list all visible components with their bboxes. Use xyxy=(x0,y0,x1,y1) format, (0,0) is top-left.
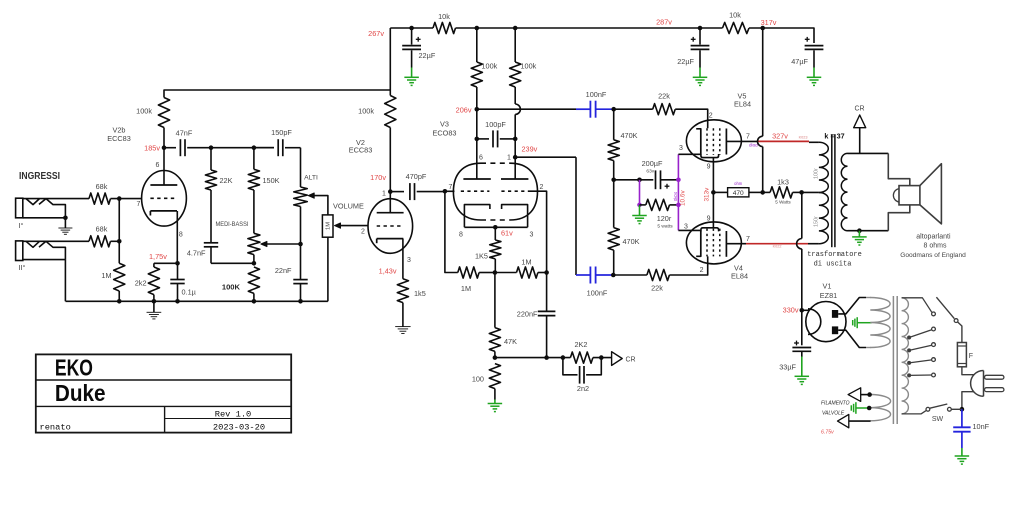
resistor 1M bias right xyxy=(495,272,517,274)
speaker cone xyxy=(920,164,942,224)
selector switch blade xyxy=(936,297,954,318)
wire 150K to MEDI-BASSI pot xyxy=(253,190,255,233)
wire V1 plate upper to HV winding xyxy=(838,298,866,314)
svg-text:200µF: 200µF xyxy=(642,159,663,168)
wire V3 left plate xyxy=(476,109,478,179)
node 100k-2 top xyxy=(513,26,518,31)
svg-text:2: 2 xyxy=(700,267,704,274)
tube V1 plate lower xyxy=(832,326,838,334)
resistor 470K upper xyxy=(613,109,615,140)
wire plate node up xyxy=(163,128,165,148)
resistor 100k V3 right plate xyxy=(514,28,516,62)
svg-text:8: 8 xyxy=(179,232,183,239)
svg-text:470K: 470K xyxy=(623,237,640,246)
svg-text:100k: 100k xyxy=(358,107,374,116)
wire 100K to rail xyxy=(253,293,255,301)
svg-text:MEDI-BASSI: MEDI-BASSI xyxy=(216,221,249,228)
svg-text:ECO83: ECO83 xyxy=(433,129,457,138)
connector CR output triangle xyxy=(859,128,861,154)
resistor 470 box xyxy=(713,191,727,193)
svg-text:1k5: 1k5 xyxy=(414,289,426,298)
svg-text:47K: 47K xyxy=(504,337,517,346)
svg-text:altoparlanti: altoparlanti xyxy=(916,233,951,240)
svg-text:10k: 10k xyxy=(438,12,450,21)
node 100nF upper out xyxy=(611,107,616,112)
resistor 100k V3 left plate xyxy=(476,28,478,62)
potentiometer ALTI xyxy=(294,187,308,207)
resistor 2k2 xyxy=(153,263,155,267)
svg-text:61v: 61v xyxy=(501,229,513,238)
node V3 cathode xyxy=(493,225,498,230)
transformer PT primary winding xyxy=(902,298,909,414)
resistor 1M bias left xyxy=(458,267,479,278)
wire speaker bottom xyxy=(888,205,910,231)
wire to fuse xyxy=(958,322,962,343)
svg-text:185v: 185v xyxy=(144,143,160,152)
svg-text:VOLUME: VOLUME xyxy=(333,201,364,210)
wire 1M to rail xyxy=(118,291,120,301)
tube V3 ECO83 double triode envelope xyxy=(453,163,481,220)
svg-text:K022: K022 xyxy=(773,245,782,249)
wire V5 cathode out xyxy=(678,153,700,155)
svg-text:Rev 1.0: Rev 1.0 xyxy=(215,409,252,419)
tap wires xyxy=(909,330,932,338)
node 206v xyxy=(475,107,480,112)
tube V1 cathode arc xyxy=(808,309,821,335)
node 120r top purple col xyxy=(637,178,642,183)
capacitor 47nF xyxy=(164,147,176,149)
wire jack II sleeve to ground rail xyxy=(64,260,66,302)
svg-text:100K: 100K xyxy=(222,282,241,291)
plug prong lower xyxy=(985,388,1004,392)
svg-text:100nF: 100nF xyxy=(586,90,607,99)
ground rail wire xyxy=(66,300,328,302)
wire fuse to plug xyxy=(962,367,974,375)
svg-text:EZ81: EZ81 xyxy=(820,291,837,300)
capacitor 100nF upper blue xyxy=(576,108,590,110)
tube V5 grid dashes xyxy=(706,128,708,155)
svg-text:287v: 287v xyxy=(656,18,672,27)
svg-text:327v: 327v xyxy=(772,132,788,141)
resistor 10k first xyxy=(433,22,456,33)
svg-text:0k04: 0k04 xyxy=(673,191,678,201)
ground 47uF green xyxy=(813,68,815,78)
svg-text:renato: renato xyxy=(40,423,71,433)
heater symbol V1 green xyxy=(857,322,872,324)
wire OPT center tap to V1 xyxy=(801,192,803,238)
svg-text:3: 3 xyxy=(530,232,534,239)
svg-text:239v: 239v xyxy=(522,145,538,154)
svg-text:EL84: EL84 xyxy=(731,272,748,281)
node secondary ground xyxy=(857,228,862,233)
tube V4 plate xyxy=(725,231,727,257)
svg-text:ECC83: ECC83 xyxy=(107,134,131,143)
node purple 120r xyxy=(676,203,681,208)
wire V4 pin9 up xyxy=(712,192,714,227)
node ALTI bottom 22nF xyxy=(298,242,303,247)
svg-text:22µF: 22µF xyxy=(677,57,694,66)
wire jack II sleeve xyxy=(23,259,66,261)
capacitor 150pF xyxy=(254,147,274,149)
resistor 100k V2 plate load xyxy=(385,96,396,128)
resistor 1k5 V2 cathode xyxy=(397,279,408,303)
wire V5 plate out xyxy=(726,140,757,142)
resistor 10k second xyxy=(723,22,750,33)
node 2n2 left xyxy=(561,355,566,360)
triangle FILAMENTO upper xyxy=(848,388,861,402)
resistor 68k lower xyxy=(89,236,111,247)
tube V2b ECC83 triode xyxy=(142,171,187,227)
node 68k lower junction xyxy=(117,239,122,244)
wire tone stack top xyxy=(211,147,274,149)
tube V3 cathode left xyxy=(464,205,490,228)
ground 22uF second green xyxy=(699,68,701,78)
svg-text:100r: 100r xyxy=(814,168,820,179)
ground 22uF first green xyxy=(411,68,413,78)
node 220nF bottom xyxy=(544,355,549,360)
wire NFB row xyxy=(495,357,571,359)
svg-text:1k3: 1k3 xyxy=(777,178,789,187)
svg-text:VALVOLE: VALVOLE xyxy=(822,411,845,417)
svg-text:10nF: 10nF xyxy=(973,422,990,431)
tube V4 cathode xyxy=(696,230,701,256)
svg-text:II°: II° xyxy=(19,263,26,272)
wire 68k lower to node xyxy=(111,240,120,242)
mains plug body xyxy=(983,371,985,397)
wire jack I tip xyxy=(23,198,89,200)
node cathode 0.1u junction xyxy=(175,261,180,266)
svg-text:100nF: 100nF xyxy=(587,289,608,298)
wire screens drop xyxy=(762,28,764,136)
transformer OPT core xyxy=(831,134,833,247)
transformer PT core xyxy=(892,296,894,424)
capacitor 2n2 parallel xyxy=(563,358,578,375)
svg-text:V1: V1 xyxy=(823,282,832,291)
resistor 2K2 feedback xyxy=(570,352,593,363)
node purple 200uF xyxy=(676,178,681,183)
tube V4 grid dashes xyxy=(706,229,708,257)
svg-text:100k: 100k xyxy=(136,107,152,116)
node V3 grid junction xyxy=(443,189,448,194)
svg-text:1M: 1M xyxy=(461,284,471,293)
node 47K bottom xyxy=(493,355,498,360)
svg-text:330v: 330v xyxy=(783,305,799,314)
node 470K junction xyxy=(611,178,616,183)
svg-text:K023: K023 xyxy=(799,135,808,139)
wire V1 cathode stub xyxy=(802,309,810,311)
tube V1 EZ81 envelope xyxy=(806,302,846,342)
svg-text:1: 1 xyxy=(507,155,511,162)
node 2k2 rail xyxy=(152,299,157,304)
resistor 100k V2b plate load xyxy=(158,98,169,128)
selector tap circles xyxy=(932,312,936,316)
svg-text:9: 9 xyxy=(707,216,711,223)
node filament center xyxy=(867,406,872,411)
tube V3 cathode right xyxy=(502,205,528,228)
resistor 100K bold xyxy=(248,267,259,293)
wire V3 cathode bus xyxy=(464,226,527,228)
wire 2k2 top to cathode xyxy=(154,262,178,264)
transformer OPT primary winding xyxy=(802,191,819,193)
svg-text:2: 2 xyxy=(540,184,544,191)
wire PT primary top tap xyxy=(902,298,932,313)
svg-text:8: 8 xyxy=(459,232,463,239)
svg-text:8 ohms: 8 ohms xyxy=(924,243,947,250)
wire grid node down xyxy=(118,199,120,264)
svg-text:470: 470 xyxy=(733,190,744,197)
svg-text:Goodmans of England: Goodmans of England xyxy=(900,252,966,259)
svg-text:4.7nF: 4.7nF xyxy=(187,249,206,258)
wire V4 plate red xyxy=(746,243,808,245)
svg-text:100: 100 xyxy=(472,375,484,384)
pot VOLUME wiper arrow xyxy=(335,223,341,228)
ground 120r green xyxy=(639,205,641,216)
node 1M right xyxy=(544,270,549,275)
svg-text:Duke: Duke xyxy=(55,380,106,406)
svg-text:317v: 317v xyxy=(761,18,777,27)
wire V2b cathode down pin 8 xyxy=(176,211,178,263)
svg-text:CR: CR xyxy=(626,356,636,363)
node 2K2 right xyxy=(599,355,604,360)
wire plug bottom xyxy=(962,392,974,410)
svg-text:6.75v: 6.75v xyxy=(821,430,834,436)
wire 100k to V2 plate xyxy=(389,128,391,213)
plug prong upper xyxy=(985,375,1004,379)
node grid junction xyxy=(117,196,122,201)
wire V3 grid bias row xyxy=(445,192,458,273)
svg-text:2: 2 xyxy=(361,229,365,236)
wire V3 left grid xyxy=(445,190,455,192)
transformer PT HV winding xyxy=(870,298,890,348)
svg-text:2: 2 xyxy=(709,113,713,120)
node 100k-1 top xyxy=(475,26,480,31)
capacitor 33uF xyxy=(792,347,811,349)
wire rail right end xyxy=(749,28,814,43)
ground 33uF green xyxy=(801,351,803,357)
capacitor 0.1u xyxy=(177,263,179,279)
svg-text:22k: 22k xyxy=(658,92,670,101)
svg-text:1,75v: 1,75v xyxy=(149,252,167,261)
svg-text:100k: 100k xyxy=(482,62,498,71)
svg-text:2k2: 2k2 xyxy=(135,279,147,288)
wire 68k to V2b grid xyxy=(111,198,142,200)
svg-text:diod: diod xyxy=(749,143,758,148)
node 0.1u rail xyxy=(175,299,180,304)
tube V3 left plate bar xyxy=(463,178,490,180)
resistor 1k3 xyxy=(763,191,770,193)
wire filament top xyxy=(861,394,871,396)
wire pin1 out xyxy=(515,156,576,158)
svg-text:7: 7 xyxy=(137,201,141,208)
svg-text:22nF: 22nF xyxy=(275,266,292,275)
node pot bottom xyxy=(252,261,257,266)
svg-text:CR: CR xyxy=(854,106,864,113)
svg-text:0.1µ: 0.1µ xyxy=(182,287,197,296)
wire 100k-2 with hop over 206v xyxy=(514,87,516,104)
svg-text:F: F xyxy=(969,353,973,360)
svg-text:1M: 1M xyxy=(326,222,332,230)
resistor 1M grid leak xyxy=(114,263,125,291)
wire V5 pin9 down xyxy=(712,158,714,193)
svg-text:I°: I° xyxy=(19,221,24,230)
resistor 22k to V4 grid xyxy=(613,274,647,276)
transformer OPT secondary winding xyxy=(841,153,847,230)
jack J1 input I xyxy=(16,198,23,218)
svg-text:150pF: 150pF xyxy=(271,128,292,137)
resistor 470K lower xyxy=(613,180,615,228)
svg-text:7: 7 xyxy=(746,134,750,141)
tube V2 ECC83 triode xyxy=(368,199,413,254)
wire 22nF down xyxy=(300,244,302,280)
svg-text:120r: 120r xyxy=(657,214,672,223)
ground V2 cathode xyxy=(402,303,404,327)
svg-text:10k: 10k xyxy=(729,11,741,20)
node 1M rail xyxy=(117,299,122,304)
ground jack I xyxy=(64,218,66,228)
wire jack I sleeve xyxy=(23,217,66,219)
potentiometer MEDI-BASSI xyxy=(248,233,260,254)
capacitor 200uF xyxy=(655,170,657,189)
tap dots xyxy=(907,336,911,340)
svg-text:150K: 150K xyxy=(263,176,280,185)
svg-text:470K: 470K xyxy=(621,131,638,140)
svg-text:FILAMENTO: FILAMENTO xyxy=(821,401,850,407)
tube V5 EL84 envelope xyxy=(686,120,741,162)
wire 4.7nF to pot bottom xyxy=(211,262,254,264)
svg-text:22µF: 22µF xyxy=(419,51,436,60)
node 150K top xyxy=(252,145,257,150)
wire filament bottom xyxy=(849,420,871,422)
svg-text:100k: 100k xyxy=(521,62,537,71)
wire B+ riser xyxy=(389,28,391,96)
node screen junction xyxy=(711,190,716,195)
svg-text:3: 3 xyxy=(684,224,688,231)
svg-text:47nF: 47nF xyxy=(176,128,193,137)
svg-text:22k: 22k xyxy=(651,284,663,293)
wire 206v xyxy=(477,108,576,110)
node 22K top xyxy=(209,145,214,150)
svg-text:220nF: 220nF xyxy=(517,310,538,319)
svg-text:3: 3 xyxy=(407,257,411,264)
heater center tap green xyxy=(856,407,869,409)
svg-text:di uscita: di uscita xyxy=(814,261,852,269)
wire V3 pin1 down xyxy=(575,157,577,275)
svg-text:33µF: 33µF xyxy=(779,363,796,372)
svg-text:5 Watts: 5 Watts xyxy=(775,199,791,204)
svg-text:EL84: EL84 xyxy=(734,100,751,109)
tube V1 plate upper xyxy=(832,310,838,318)
wire 22K to 4.7nF xyxy=(210,190,212,243)
resistor 68k upper xyxy=(89,193,111,204)
wire PT primary bottom xyxy=(902,411,926,414)
svg-text:170v: 170v xyxy=(370,173,386,182)
wire V2 cathode down xyxy=(402,239,404,279)
node OPT center tap xyxy=(799,190,804,195)
svg-text:267v: 267v xyxy=(368,29,384,38)
wire 470K junction row xyxy=(614,179,654,181)
svg-text:2K2: 2K2 xyxy=(575,340,588,349)
jack J2 input II xyxy=(16,241,23,261)
node mains junction xyxy=(960,407,965,412)
switch SW circles xyxy=(926,407,930,411)
svg-text:68k: 68k xyxy=(96,182,108,191)
connector CR feedback triangle xyxy=(612,352,623,366)
svg-text:7: 7 xyxy=(746,236,750,243)
wire 100k up to B+ branch xyxy=(164,90,390,98)
title block frame xyxy=(36,354,291,432)
svg-text:1,43v: 1,43v xyxy=(379,267,397,276)
tube V3 left grid dashes xyxy=(461,190,490,192)
svg-text:100pF: 100pF xyxy=(485,120,506,129)
svg-text:ECC83: ECC83 xyxy=(349,146,373,155)
svg-text:1M: 1M xyxy=(101,271,111,280)
wire V4 plate out xyxy=(726,243,746,245)
svg-text:trasformatore: trasformatore xyxy=(807,251,862,259)
ground 10nF green xyxy=(961,448,963,456)
svg-text:313v: 313v xyxy=(704,187,711,202)
node bias center xyxy=(493,270,498,275)
svg-text:EKO: EKO xyxy=(55,355,93,381)
svg-text:22K: 22K xyxy=(220,176,233,185)
wire purple 120r drop xyxy=(639,180,641,205)
capacitor 4.7nF xyxy=(204,242,218,244)
ground secondary green xyxy=(858,231,860,237)
svg-text:ohm: ohm xyxy=(734,181,743,186)
svg-text:2023-03-20: 2023-03-20 xyxy=(213,423,265,433)
svg-text:6: 6 xyxy=(156,162,160,169)
svg-text:47µF: 47µF xyxy=(791,57,808,66)
svg-text:V3: V3 xyxy=(440,120,449,129)
resistor 150K xyxy=(253,148,255,170)
tube V3 right plate bar xyxy=(501,178,528,180)
wire 22nF to rail xyxy=(300,284,302,302)
node 330v xyxy=(800,308,805,313)
resistor 47K xyxy=(494,273,496,328)
transformer PT filament winding xyxy=(870,395,890,421)
svg-text:9: 9 xyxy=(707,164,711,171)
wire speaker top xyxy=(888,153,910,185)
node 185v xyxy=(162,145,167,150)
potentiometer VOLUME box xyxy=(322,215,333,237)
switch SW blade xyxy=(930,404,947,408)
node 100K rail xyxy=(252,299,257,304)
resistor 1K5 V3 cathode xyxy=(494,227,496,240)
svg-text:3: 3 xyxy=(679,145,683,152)
node 100pF left xyxy=(475,137,480,142)
capacitor 22uF first xyxy=(411,28,413,45)
svg-text:10.6v: 10.6v xyxy=(680,190,687,206)
tube V5 cathode xyxy=(696,129,701,155)
resistor 22k to V5 grid xyxy=(614,108,653,110)
svg-text:6: 6 xyxy=(479,155,483,162)
wire jack II tip xyxy=(23,240,89,242)
tube V5 beam electrode xyxy=(701,154,719,158)
pot MEDI-BASSI wiper arrow xyxy=(261,241,267,246)
wire 4.7nF down xyxy=(210,247,212,263)
node jack I sleeve junction xyxy=(63,216,68,221)
svg-text:1K5: 1K5 xyxy=(475,252,488,261)
svg-text:68k: 68k xyxy=(96,225,108,234)
capacitor 22uF second xyxy=(699,28,701,45)
ground main xyxy=(153,301,155,312)
capacitor 10nF blue xyxy=(961,409,963,427)
node 120r bottom xyxy=(637,203,642,208)
node screens xyxy=(760,190,765,195)
node V2 plate 470pF xyxy=(388,189,393,194)
wire rail mid xyxy=(456,27,723,29)
node filament top xyxy=(867,392,872,397)
node 22uF tap xyxy=(409,26,414,31)
